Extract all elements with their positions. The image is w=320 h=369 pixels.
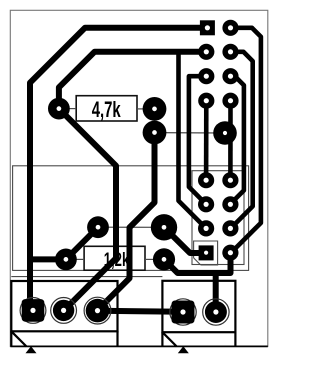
pad P9 ring	[20, 298, 46, 324]
pad P12 square	[172, 301, 195, 324]
wire net A8 through pad P4 to pad B2	[228, 101, 233, 181]
wire branch down to pad P13	[213, 273, 219, 312]
wire net A5 right edge to pad B8	[231, 28, 261, 254]
pad A8	[222, 93, 238, 109]
connector X1 box	[11, 281, 117, 347]
wire net P5 to pad P7	[66, 227, 98, 259]
svg-text:4,7k: 4,7k	[92, 97, 121, 122]
wire branch to pad P7	[30, 256, 66, 262]
pad P2 (R1 right)	[143, 97, 167, 121]
wire net A7 to pad B4	[230, 76, 244, 204]
resistor R1 stub left	[68, 108, 76, 110]
wire net P1 to jumper pad P10	[59, 109, 116, 311]
pad P11 ring	[84, 297, 111, 324]
pad P10 ring	[51, 298, 77, 324]
wire net P6 to square pad B	[164, 227, 206, 253]
connector X1 outline top line	[11, 276, 162, 278]
marker triangle 1	[26, 346, 37, 353]
square pad outline box with chamfer	[194, 241, 218, 265]
pad B7 square	[199, 245, 214, 260]
component outline box U2 region (big middle box)	[13, 166, 249, 271]
wire branch from A2 down to pad B5	[179, 52, 207, 229]
pad P8 (R2 right)	[153, 248, 175, 270]
pad A5	[222, 20, 238, 36]
pad P9 square	[22, 299, 45, 322]
connector X2 box	[162, 281, 235, 347]
label 1,2k	[104, 248, 130, 270]
pad B3	[198, 196, 214, 212]
svg-text:1,2k: 1,2k	[104, 248, 130, 270]
label 4,7k	[92, 97, 121, 122]
pad P7 (R2 left)	[55, 249, 77, 271]
pad P11	[86, 299, 110, 323]
resistor R2 box	[84, 246, 145, 270]
pad B5	[198, 220, 214, 236]
pad A7	[222, 68, 238, 84]
resistor R1 box	[76, 96, 137, 121]
pad P5	[87, 216, 109, 238]
board outline	[10, 10, 268, 346]
pad B4	[222, 196, 238, 212]
pad A2	[198, 44, 214, 60]
pad P6	[151, 214, 177, 240]
pad B2	[222, 172, 238, 188]
pad P13 ring	[203, 299, 229, 325]
pad P4	[213, 121, 237, 145]
resistor R2 stub right	[145, 258, 154, 260]
IC U3 outline box	[192, 171, 244, 265]
pad A1 square pin1	[200, 20, 215, 35]
pad B1	[198, 172, 214, 188]
resistor R1 stub right	[137, 108, 144, 110]
pad P10	[53, 300, 74, 321]
pad P1	[48, 98, 70, 120]
pad A3	[198, 68, 214, 84]
wire net P11 to square pad P12	[98, 311, 184, 312]
wire net A2: pad row2 to pad P1	[59, 52, 206, 109]
wire net A1: square pad to left, down, to bottom connector	[30, 28, 206, 311]
resistor R2 stub left	[76, 258, 85, 260]
pad P12 ring	[170, 299, 196, 325]
pad P3	[143, 121, 167, 145]
connector X2 pads bottom-right	[170, 299, 229, 325]
pad A6	[222, 44, 238, 60]
wire net P8 to pad B8 and P13	[164, 253, 231, 273]
wire net A4 to pad B1	[204, 101, 209, 181]
marker triangle 2	[178, 346, 189, 353]
wire net P3 down to pad P11	[98, 133, 155, 311]
pad B8	[222, 245, 238, 261]
IC U1 pads top	[198, 20, 238, 109]
jumper outline wire between pads P3-P4	[155, 132, 226, 134]
pad A4	[198, 93, 214, 109]
IC U3 pads bottom	[198, 172, 238, 261]
wire net A6 to pad B6	[230, 52, 252, 229]
wire net A3 to pad B3	[189, 76, 206, 204]
pad B6	[222, 220, 238, 236]
pad P13	[205, 301, 227, 323]
jumper outline wire between pads P5-P6	[98, 226, 164, 228]
connector X1 pads bottom-left	[20, 297, 111, 324]
board outline bottom edge	[10, 345, 267, 347]
